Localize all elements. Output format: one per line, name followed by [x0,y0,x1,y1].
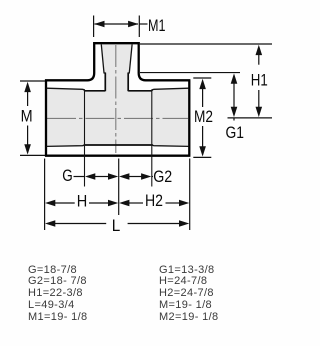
dimension G1 arrows [231,73,238,83]
svg-text:M1: M1 [148,16,166,35]
bore top line right of branch [128,90,152,92]
branch socket interior fill [101,44,132,73]
branch top reference line (for H1) [140,43,272,45]
dimension G leader and arrows [74,176,85,178]
branch socket left taper [101,44,104,72]
main bore fill [85,91,152,146]
branch bore left wall [104,73,106,92]
branch bore fill [105,73,128,91]
svg-text:G2: G2 [153,167,172,186]
dimension M extension lines [20,80,45,82]
centerline reference line (for G1 and H1) [228,117,273,119]
horizontal centerline [47,117,188,119]
dimension value table [0,259,290,261]
dimension M1 extension lines [93,16,95,38]
svg-text:G1: G1 [226,123,245,142]
svg-text:H2: H2 [145,191,163,210]
left socket interior fill [47,88,85,146]
svg-text:M2: M2 [194,107,213,126]
dimension M line and arrows [24,82,31,92]
right socket top edge [152,88,189,91]
svg-text:H: H [77,191,88,210]
svg-text:L: L [112,216,121,235]
right socket shoulder / extension line [151,89,153,186]
tee body outline [45,42,191,156]
dimension M1 line and arrows [95,23,139,25]
bottom extension line left end [44,159,46,231]
dimension M2 arrows [199,79,206,89]
right socket bottom edge [152,144,189,146]
left socket shoulder / extension line [84,89,86,186]
dimension G2 arrows [119,173,129,180]
svg-text:G: G [62,166,73,185]
bottom extension line center [118,159,120,216]
dimension L arrows [45,220,55,227]
svg-text:M: M [21,107,33,126]
branch socket right taper [129,44,132,72]
left socket bottom edge [47,144,85,146]
branch shoulder reference line (for G1) [140,72,240,74]
dimension H1 arrows [256,45,263,55]
left socket top edge [47,88,85,91]
svg-text:H1: H1 [251,71,268,90]
dimension M2 reference lines [193,77,211,79]
dimension H arrows [45,200,55,207]
right socket interior fill [152,88,189,146]
bottom extension line right end [189,159,191,231]
branch bore right wall [127,73,129,92]
dimension H2 arrows [119,200,129,207]
vertical centerline [115,45,117,153]
bore top line left of branch [84,90,105,92]
branch socket shoulder [104,72,106,74]
bore bottom line [84,144,152,146]
